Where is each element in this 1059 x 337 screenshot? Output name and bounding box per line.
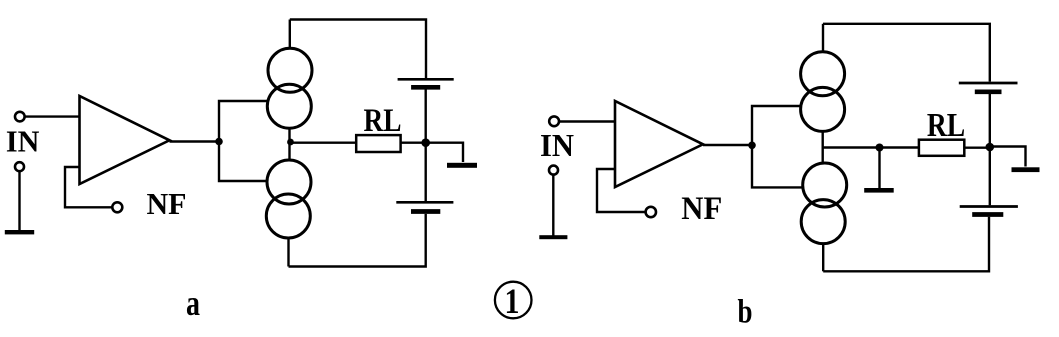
terminal NF (b) xyxy=(646,207,656,217)
wire current source to bottom rail (b) xyxy=(822,244,824,272)
svg-text:NF: NF xyxy=(147,186,187,221)
battery B2 positive plate (a) xyxy=(396,201,453,204)
wire tap to ground (b) xyxy=(878,148,880,189)
junction dot at op-amp output (b) xyxy=(748,142,756,150)
current source I1 upper pair (a) xyxy=(267,48,312,128)
wire IN terminal to op-amp input (a) xyxy=(25,115,80,117)
wire op-amp output (a) xyxy=(170,140,220,142)
wire junction to battery B4 (b) xyxy=(989,147,991,205)
svg-text:IN: IN xyxy=(6,124,40,159)
wire feedback tap to NF terminal (b) xyxy=(597,169,646,212)
wire battery B3 to junction (b) xyxy=(989,94,991,148)
wire current source to top rail (b) xyxy=(822,24,824,52)
wire terminal to ground (b) xyxy=(552,175,554,236)
resistor RL (a) xyxy=(356,135,400,152)
wire IN terminal to op-amp input (b) xyxy=(559,120,615,122)
battery B3 positive plate (b) xyxy=(959,82,1018,85)
wire junction to battery B2 (a) xyxy=(425,143,427,201)
terminal IN (circuit a) xyxy=(15,112,25,122)
wire feedback tap to NF terminal (a) xyxy=(65,167,112,207)
wire top rail (a) xyxy=(290,20,426,79)
junction dot at grounded tap (b) xyxy=(876,144,884,152)
wire drive bracket to current sources (a) xyxy=(219,101,267,181)
figure number circle xyxy=(495,282,532,319)
svg-text:b: b xyxy=(738,293,753,330)
svg-text:IN: IN xyxy=(540,127,574,163)
svg-text:RL: RL xyxy=(927,107,965,144)
battery B1 positive plate (a) xyxy=(398,78,454,81)
wire node to resistor RL (b) xyxy=(823,146,919,148)
wire drive bracket to current sources (b) xyxy=(752,106,803,187)
battery B2 negative plate (a) xyxy=(411,209,440,214)
svg-text:RL: RL xyxy=(364,103,402,139)
wire battery B2 to bottom rail (a) xyxy=(289,214,426,267)
current source I2 lower pair (a) xyxy=(266,160,311,238)
svg-text:a: a xyxy=(186,283,200,323)
current source I4 lower pair (b) xyxy=(801,163,847,244)
wire op-amp output (b) xyxy=(703,144,752,146)
wire battery B4 to bottom rail (b) xyxy=(823,217,989,271)
terminal IN (circuit b) xyxy=(549,116,559,126)
battery B4 negative plate (b) xyxy=(972,212,1003,217)
wire junction to ground (a) xyxy=(426,143,463,162)
svg-text:1: 1 xyxy=(505,281,520,321)
wire top rail (b) xyxy=(823,24,990,82)
wire battery B1 to node (a) xyxy=(425,90,427,143)
op-amp U1 (circuit a) xyxy=(80,96,170,184)
ground bar under IN (a) xyxy=(5,230,34,234)
wire junction to ground (b) xyxy=(990,147,1026,167)
current source I3 upper pair (b) xyxy=(801,52,845,132)
wire resistor RL to battery junction (a) xyxy=(401,141,426,143)
junction dot at battery midpoint (b) xyxy=(986,143,995,152)
wire terminal to ground (a) xyxy=(18,171,20,231)
ground bar mid (b) xyxy=(864,188,894,193)
terminal ground-side (b) xyxy=(549,166,558,175)
ground bar right (b) xyxy=(1012,167,1040,172)
ground bar right (a) xyxy=(447,163,477,168)
battery B4 positive plate (b) xyxy=(960,205,1018,208)
svg-text:NF: NF xyxy=(681,191,722,227)
junction dot at output node (a) xyxy=(287,139,294,146)
wire node to resistor RL (a) xyxy=(291,141,357,143)
wire resistor RL to battery junction (b) xyxy=(964,146,990,148)
junction dot at battery midpoint (a) xyxy=(421,138,430,147)
op-amp U2 (circuit b) xyxy=(615,101,703,187)
junction dot at op-amp output (a) xyxy=(215,138,223,146)
resistor RL (b) xyxy=(919,140,964,156)
wire between current source pairs (b) xyxy=(822,131,824,163)
terminal ground-side (a) xyxy=(15,162,24,171)
battery B3 negative plate (b) xyxy=(975,90,1002,95)
ground bar under IN (b) xyxy=(539,235,567,239)
wire current source to bottom rail (a) xyxy=(287,238,289,267)
battery B1 negative plate (a) xyxy=(411,85,440,90)
wire current source to top rail (a) xyxy=(289,20,291,49)
terminal NF (a) xyxy=(112,202,122,212)
wire between current source pairs (a) xyxy=(288,128,290,160)
